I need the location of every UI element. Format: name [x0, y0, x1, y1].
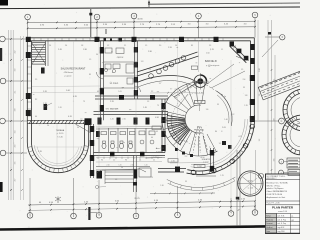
svg-text:0.9: 0.9 — [239, 136, 242, 138]
svg-text:CLUB TIP P+2E+M: CLUB TIP P+2E+M — [267, 194, 283, 196]
svg-text:BAR DE ZI: BAR DE ZI — [205, 60, 217, 63]
svg-text:PRINCIPAL: PRINCIPAL — [194, 129, 204, 132]
svg-text:4.20: 4.20 — [68, 116, 72, 118]
svg-text:(+0.45): (+0.45) — [197, 93, 203, 95]
svg-text:2.10: 2.10 — [106, 164, 109, 166]
svg-text:1.2: 1.2 — [232, 114, 235, 116]
svg-text:2.4: 2.4 — [243, 79, 246, 81]
svg-text:arh. D. Pop: arh. D. Pop — [278, 218, 287, 221]
svg-text:1.15: 1.15 — [220, 175, 223, 177]
svg-text:GR. SANITAR: GR. SANITAR — [106, 107, 119, 110]
svg-text:85: 85 — [89, 74, 91, 76]
svg-text:SP. PREP.: SP. PREP. — [110, 83, 119, 85]
svg-text:2.10: 2.10 — [130, 164, 133, 166]
svg-text:1.4: 1.4 — [175, 45, 177, 47]
svg-text:1.5: 1.5 — [145, 45, 147, 47]
svg-text:~350 locuri: ~350 locuri — [63, 72, 73, 74]
svg-text:Obiect: RESTAURANT SI: Obiect: RESTAURANT SI — [267, 190, 288, 193]
svg-text:1.2: 1.2 — [107, 45, 109, 47]
svg-text:1.9: 1.9 — [241, 69, 243, 71]
svg-text:1.8: 1.8 — [115, 179, 117, 181]
svg-text:1.7: 1.7 — [159, 83, 162, 85]
svg-text:1.6: 1.6 — [206, 109, 209, 111]
svg-text:1.8: 1.8 — [81, 45, 83, 47]
svg-text:5.60: 5.60 — [66, 90, 70, 92]
svg-text:aug.1996: aug.1996 — [278, 231, 285, 233]
svg-text:p: gresie: p: gresie — [65, 75, 72, 77]
svg-text:1.2: 1.2 — [113, 160, 115, 162]
svg-text:40.90: 40.90 — [137, 19, 143, 21]
svg-text:Proiectat: Proiectat — [266, 218, 273, 221]
svg-text:sc 1:20: sc 1:20 — [248, 188, 254, 190]
svg-text:6.35: 6.35 — [73, 96, 77, 98]
svg-text:2.9: 2.9 — [175, 89, 178, 91]
svg-text:SRL Str. 1 Princi-: SRL Str. 1 Princi- — [267, 184, 281, 187]
svg-text:60: 60 — [35, 116, 37, 118]
svg-text:2.4: 2.4 — [49, 45, 51, 47]
svg-text:90: 90 — [96, 54, 98, 56]
svg-text:45: 45 — [97, 91, 99, 93]
svg-text:2.10: 2.10 — [122, 119, 125, 121]
svg-text:2.80: 2.80 — [259, 68, 261, 72]
svg-text:1.20: 1.20 — [118, 164, 121, 166]
svg-text:2.3: 2.3 — [209, 45, 211, 47]
svg-text:1.10: 1.10 — [43, 103, 47, 105]
svg-text:75: 75 — [83, 101, 85, 103]
svg-text:2.2: 2.2 — [185, 156, 188, 158]
svg-text:3.2: 3.2 — [35, 99, 37, 101]
svg-text:SALON RESTAURANT: SALON RESTAURANT — [61, 68, 86, 71]
svg-text:2.35: 2.35 — [110, 101, 114, 103]
svg-text:1.4: 1.4 — [47, 125, 49, 127]
svg-text:85: 85 — [233, 159, 235, 161]
svg-text:1.1: 1.1 — [219, 143, 222, 145]
svg-text:scara 1:50: scara 1:50 — [278, 210, 287, 213]
svg-text:2.05: 2.05 — [222, 127, 226, 129]
svg-text:2.10: 2.10 — [171, 160, 175, 162]
svg-text:1.1: 1.1 — [221, 49, 223, 51]
svg-text:75: 75 — [151, 177, 153, 179]
svg-text:C: C — [281, 120, 283, 123]
svg-text:90: 90 — [125, 160, 127, 162]
svg-text:Data: Data — [266, 230, 270, 233]
svg-text:75: 75 — [157, 105, 159, 107]
svg-text:1.80: 1.80 — [83, 49, 87, 51]
svg-text:detaliu: detaliu — [248, 180, 253, 183]
svg-text:1.1: 1.1 — [153, 160, 155, 162]
svg-text:+0.90: +0.90 — [200, 157, 205, 159]
svg-text:1.35: 1.35 — [244, 105, 247, 107]
svg-text:95: 95 — [185, 181, 187, 183]
svg-text:60: 60 — [151, 137, 153, 139]
svg-text:OFICIU: OFICIU — [117, 57, 124, 59]
svg-text:0.90: 0.90 — [155, 117, 159, 119]
svg-text:1.20: 1.20 — [144, 164, 147, 166]
svg-text:Sef pr.: Sef pr. — [266, 214, 271, 217]
svg-text:15: 15 — [35, 59, 37, 61]
svg-text:palului c Cluj Napoca: palului c Cluj Napoca — [267, 188, 284, 190]
svg-text:2.80: 2.80 — [148, 51, 152, 53]
svg-text:Beneficiar: S.C. TIL NOVA: Beneficiar: S.C. TIL NOVA — [267, 181, 289, 184]
svg-text:p: 15.20: p: 15.20 — [57, 133, 64, 135]
svg-text:TERASA: TERASA — [56, 129, 65, 132]
svg-text:28.70: 28.70 — [134, 198, 140, 200]
svg-text:p: 45 locuri gresie: p: 45 locuri gresie — [206, 64, 219, 67]
svg-text:80: 80 — [215, 131, 217, 133]
svg-text:Amplasament: str. Garii: Amplasament: str. Garii — [267, 196, 286, 199]
svg-text:arh. V. M.: arh. V. M. — [278, 214, 286, 217]
svg-text:2.45: 2.45 — [58, 49, 62, 51]
svg-text:5.20: 5.20 — [43, 91, 47, 93]
svg-text:1.8: 1.8 — [245, 95, 248, 97]
svg-text:2.0: 2.0 — [159, 45, 161, 47]
svg-text:95: 95 — [217, 104, 219, 106]
svg-text:2.9: 2.9 — [35, 79, 37, 81]
svg-text:90: 90 — [121, 167, 123, 169]
svg-text:Desenat: Desenat — [266, 222, 273, 225]
svg-text:3.35: 3.35 — [38, 151, 42, 153]
svg-text:1.20: 1.20 — [58, 107, 61, 109]
svg-text:2.1: 2.1 — [149, 69, 152, 71]
svg-text:1.4: 1.4 — [139, 160, 141, 162]
svg-text:Verificat: Verificat — [266, 226, 273, 229]
svg-text:1.3: 1.3 — [147, 101, 149, 103]
svg-text:90: 90 — [101, 160, 103, 162]
svg-text:1.05: 1.05 — [118, 91, 121, 93]
svg-text:p: mozaic: p: mozaic — [195, 133, 202, 135]
svg-text:h: 3.40: h: 3.40 — [57, 136, 63, 138]
svg-text:1.30: 1.30 — [160, 185, 163, 187]
svg-text:arh. D. Pop: arh. D. Pop — [278, 222, 287, 225]
svg-text:45: 45 — [156, 131, 158, 133]
svg-text:2.4: 2.4 — [65, 45, 67, 47]
svg-text:1.090: 1.090 — [197, 166, 202, 168]
svg-text:c1: c1 — [35, 45, 37, 47]
svg-text:1.40: 1.40 — [224, 119, 227, 121]
svg-text:1.95: 1.95 — [168, 47, 172, 49]
svg-text:p: mozaic: p: mozaic — [156, 151, 163, 153]
svg-text:Faza: P.T. + D.E.: Faza: P.T. + D.E. — [267, 203, 281, 205]
svg-text:1.9: 1.9 — [89, 59, 91, 61]
svg-text:2.2: 2.2 — [151, 91, 153, 93]
svg-text:1.50: 1.50 — [153, 155, 157, 157]
svg-text:1.9: 1.9 — [259, 94, 261, 97]
svg-text:90: 90 — [77, 127, 79, 129]
svg-text:1.50: 1.50 — [206, 53, 210, 55]
svg-text:2.2: 2.2 — [259, 139, 261, 142]
svg-text:1.2: 1.2 — [205, 145, 207, 147]
svg-text:1.35: 1.35 — [184, 141, 188, 143]
svg-text:1.45: 1.45 — [143, 107, 147, 109]
svg-text:S.C. PROIECT T S.R.L.: S.C. PROIECT T S.R.L. — [267, 176, 286, 178]
svg-text:PLAN PARTER: PLAN PARTER — [272, 206, 294, 210]
svg-text:2.0: 2.0 — [147, 119, 149, 121]
svg-text:2.1: 2.1 — [124, 45, 126, 47]
svg-text:85: 85 — [191, 45, 193, 47]
svg-text:95: 95 — [243, 87, 245, 89]
svg-text:1.20: 1.20 — [110, 119, 113, 121]
svg-text:1.3: 1.3 — [141, 61, 144, 63]
